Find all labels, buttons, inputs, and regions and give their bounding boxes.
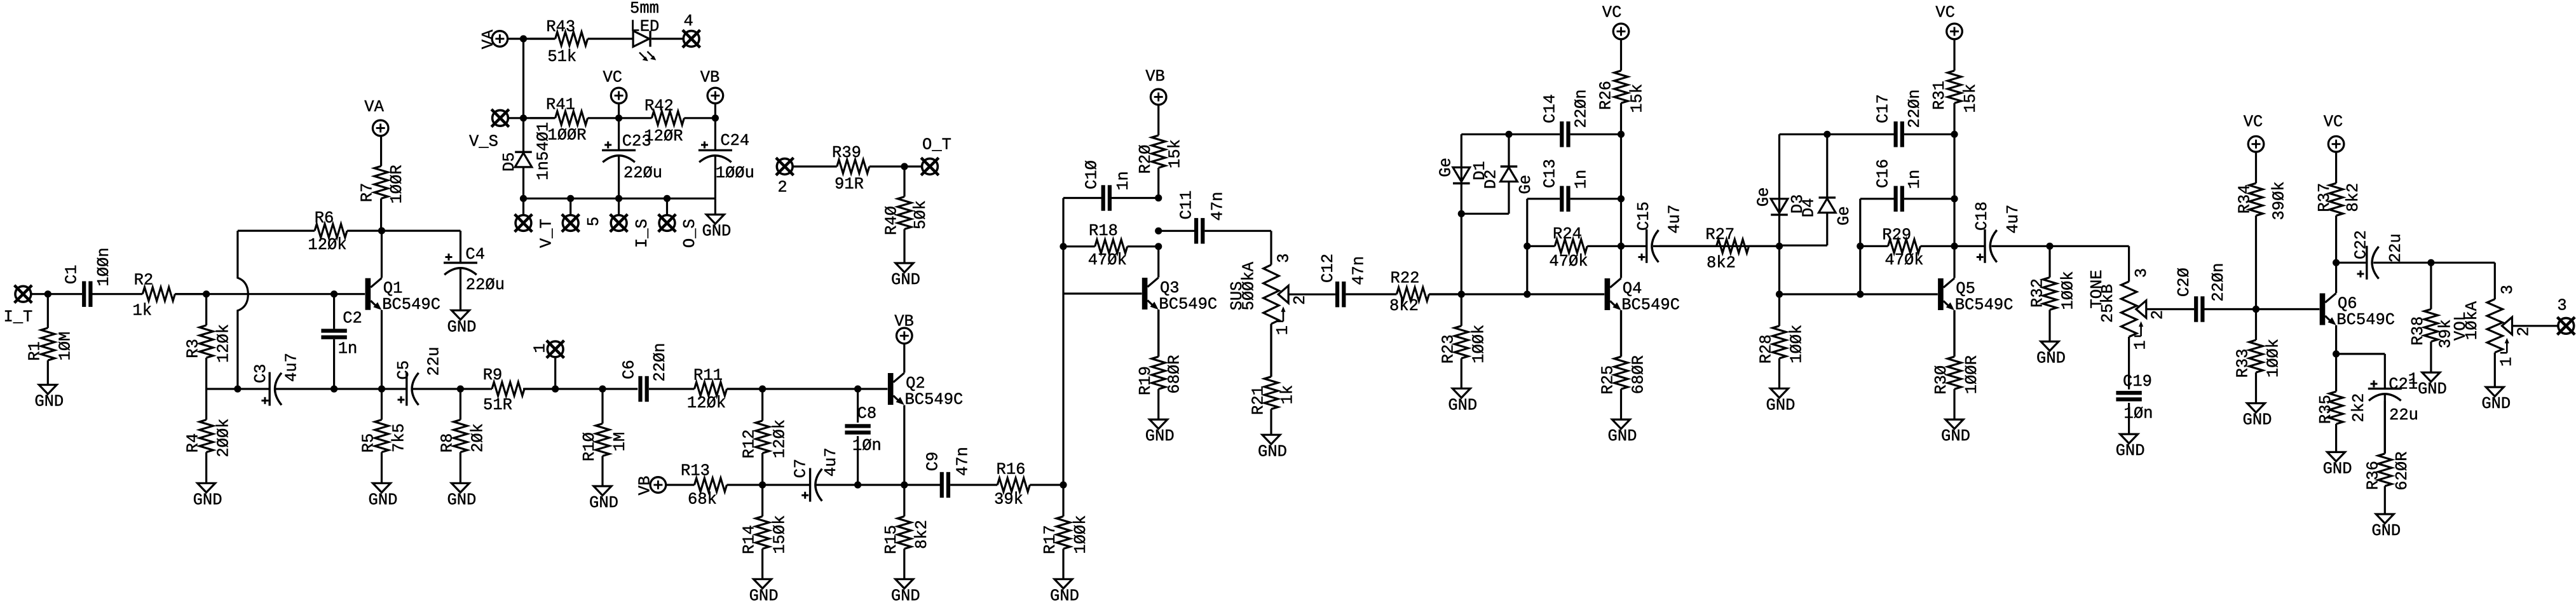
junction: [378, 228, 385, 235]
svg-text:C14: C14: [1541, 94, 1560, 123]
wire: [2494, 353, 2496, 387]
svg-text:22Øn: 22Øn: [1905, 89, 1924, 128]
wire net R29 left column: [1859, 199, 1861, 294]
svg-text:1ØØR: 1ØØR: [1963, 355, 1981, 394]
capacitor C13: [1541, 159, 1591, 212]
wire: [2373, 262, 2495, 264]
junction: [2333, 350, 2340, 357]
junction: [234, 385, 241, 392]
svg-text:GND: GND: [2036, 350, 2066, 368]
svg-text:1k: 1k: [1279, 385, 1297, 405]
wire net D4 column: [1826, 134, 1828, 198]
ground: [1941, 419, 1970, 445]
svg-text:R7: R7: [358, 182, 376, 202]
wire: [523, 388, 637, 390]
svg-text:BC549C: BC549C: [1159, 296, 1217, 314]
wire: [1953, 310, 1955, 357]
ground: [369, 483, 398, 509]
svg-text:VC: VC: [2244, 113, 2263, 132]
svg-text:VB: VB: [894, 313, 914, 331]
capacitor C17: [1874, 89, 1924, 147]
wire: [714, 198, 716, 214]
capacitor C18: [1973, 201, 2022, 263]
power VA: [364, 98, 388, 136]
wire: [460, 231, 461, 262]
junction: [2252, 306, 2259, 313]
junction: [759, 481, 766, 488]
svg-text:1n: 1n: [1114, 171, 1133, 191]
capacitor C23: [602, 132, 662, 182]
ground: [1145, 419, 1175, 445]
svg-text:V_S: V_S: [469, 133, 498, 151]
svg-text:8k2: 8k2: [1389, 297, 1419, 315]
svg-text:5: 5: [585, 217, 603, 226]
svg-text:C15: C15: [1635, 201, 1653, 231]
junction: [2427, 259, 2434, 266]
wire: [1270, 231, 1272, 264]
svg-text:R19: R19: [1136, 366, 1155, 395]
wire: [1780, 245, 1827, 247]
svg-text:1ØØk: 1ØØk: [2059, 271, 2078, 309]
junction: [2046, 243, 2053, 250]
diode D4: [1800, 198, 1854, 226]
junction: [1951, 131, 1958, 138]
svg-text:R11: R11: [693, 367, 723, 385]
wire: [1270, 324, 1272, 377]
ground: [2418, 372, 2447, 398]
svg-text:1ØØk: 1ØØk: [1072, 515, 1090, 554]
wire: [1063, 292, 1142, 294]
svg-text:VB: VB: [1145, 67, 1165, 86]
diode D2: [1482, 167, 1535, 194]
svg-text:VC: VC: [2324, 113, 2343, 132]
ground: [2036, 341, 2066, 367]
resistor R15: [882, 485, 931, 579]
capacitor C15: [1635, 201, 1684, 263]
svg-text:C2: C2: [343, 309, 362, 328]
svg-text:62ØR: 62ØR: [2393, 451, 2411, 490]
wire: [714, 104, 716, 118]
svg-text:1n: 1n: [1572, 170, 1591, 189]
svg-text:68ØR: 68ØR: [1165, 355, 1183, 393]
svg-text:LED: LED: [630, 17, 659, 36]
capacitor C22: [2352, 230, 2406, 280]
ground: [589, 486, 618, 512]
junction: [378, 385, 385, 392]
capacitor C6: [620, 343, 670, 402]
svg-text:R3: R3: [184, 339, 203, 358]
svg-text:C16: C16: [1874, 159, 1893, 188]
junction: [1060, 243, 1067, 250]
svg-text:91R: 91R: [835, 175, 864, 194]
wire: [1159, 230, 1194, 232]
transistor Q4: [1605, 278, 1680, 315]
resistor R21: [1249, 324, 1297, 435]
svg-text:1Øn: 1Øn: [852, 437, 882, 455]
svg-text:R14: R14: [740, 525, 759, 554]
capacitor C19: [2116, 372, 2153, 423]
wire: [1571, 198, 1621, 200]
svg-text:22Øn: 22Øn: [1572, 89, 1591, 128]
ground: [2243, 404, 2272, 430]
wire: [618, 104, 620, 118]
svg-text:5Øk: 5Øk: [911, 200, 930, 229]
svg-text:C22: C22: [2352, 230, 2371, 259]
junction: [1155, 194, 1162, 201]
wire: [2128, 403, 2130, 434]
power VB: [1145, 67, 1166, 105]
svg-text:1ØØR: 1ØØR: [547, 126, 586, 145]
transistor Q2: [888, 373, 963, 409]
wire: [2336, 262, 2366, 264]
ground: [193, 483, 222, 509]
svg-text:GND: GND: [1448, 396, 1477, 414]
transistor Q3: [1142, 278, 1217, 314]
svg-text:1M: 1M: [611, 432, 629, 452]
svg-text:51k: 51k: [547, 48, 576, 66]
svg-text:R16: R16: [997, 461, 1026, 479]
port 5: [562, 214, 580, 232]
ground: [447, 310, 477, 336]
svg-text:GND: GND: [2371, 522, 2401, 540]
junction: [520, 195, 527, 202]
svg-text:1n54Ø1: 1n54Ø1: [534, 122, 552, 180]
wire: [857, 389, 859, 423]
wire: [333, 294, 335, 329]
svg-text:47n: 47n: [1350, 256, 1368, 285]
svg-text:GND: GND: [2418, 380, 2447, 398]
svg-text:Ge: Ge: [1754, 187, 1773, 207]
resistor R16: [950, 461, 1063, 509]
svg-text:VB: VB: [700, 68, 720, 86]
svg-text:R4: R4: [184, 433, 203, 453]
svg-text:C18: C18: [1973, 201, 1991, 231]
wire net D3 column: [1778, 134, 1780, 294]
wire: [618, 118, 620, 151]
svg-text:R34: R34: [2236, 184, 2254, 214]
svg-text:R39: R39: [832, 144, 861, 162]
wire: [2128, 246, 2130, 282]
svg-text:R31: R31: [1930, 81, 1949, 110]
junction: [331, 385, 337, 392]
wire: [1429, 293, 1604, 295]
svg-text:15k: 15k: [1166, 139, 1184, 168]
svg-text:7k5: 7k5: [390, 423, 409, 452]
svg-text:2ØØk: 2ØØk: [215, 418, 233, 457]
svg-text:1ØØk: 1ØØk: [1788, 325, 1806, 364]
svg-text:VC: VC: [1935, 4, 1955, 22]
svg-text:1ØØn: 1ØØn: [95, 247, 113, 286]
svg-text:1k: 1k: [132, 302, 152, 320]
svg-text:Ge: Ge: [1436, 158, 1455, 177]
svg-text:C13: C13: [1541, 159, 1560, 188]
svg-text:I_T: I_T: [3, 308, 32, 326]
wire net Q4 collector column: [1620, 134, 1622, 278]
wire: [1527, 198, 1560, 200]
wire: [2146, 308, 2194, 310]
svg-text:22Øu: 22Øu: [624, 164, 662, 182]
svg-text:R33: R33: [2234, 349, 2252, 378]
wire: [2128, 337, 2130, 390]
ground: [34, 385, 64, 411]
diode D5: [500, 122, 552, 180]
port 2: [776, 158, 794, 175]
resistor R22: [1346, 269, 1461, 315]
resistor R36: [2364, 400, 2411, 514]
capacitor C20: [2175, 263, 2228, 322]
junction: [567, 195, 574, 202]
power VC: [1935, 4, 1962, 39]
junction: [1951, 243, 1958, 250]
wire: [1653, 245, 1780, 247]
wire: [2494, 262, 2496, 299]
svg-text:3: 3: [2132, 268, 2151, 278]
ground: [2116, 434, 2145, 460]
svg-text:12Øk: 12Øk: [215, 324, 233, 363]
wire: [1110, 197, 1159, 199]
power VC: [2324, 113, 2344, 152]
junction: [1155, 228, 1162, 235]
wire: [714, 118, 716, 151]
resistor R26: [1597, 39, 1646, 135]
svg-text:R41: R41: [546, 96, 575, 114]
port I_S: [610, 214, 628, 232]
resistor R1: [25, 294, 74, 385]
ground: [1608, 419, 1637, 445]
capacitor C16: [1874, 159, 1924, 212]
resistor R30: [1932, 310, 1981, 419]
resistor R35: [2317, 354, 2368, 452]
capacitor C10: [1083, 160, 1133, 211]
svg-text:R37: R37: [2315, 183, 2334, 212]
ground: [1258, 435, 1287, 461]
svg-text:68k: 68k: [688, 491, 717, 509]
svg-text:4u7: 4u7: [822, 447, 840, 477]
wire: [903, 405, 905, 486]
svg-text:8k2: 8k2: [2344, 183, 2362, 212]
wire net D1 column: [1461, 134, 1462, 294]
svg-text:C9: C9: [924, 452, 943, 472]
svg-text:GND: GND: [369, 491, 398, 509]
wire: [382, 230, 461, 232]
ground: [702, 215, 731, 241]
junction: [203, 290, 210, 297]
resistor R7: [358, 136, 406, 231]
resistor R8: [439, 389, 487, 483]
ground: [891, 263, 920, 289]
junction: [599, 385, 606, 392]
junction: [1823, 131, 1830, 138]
power VB: [700, 68, 723, 103]
resistor R9: [483, 366, 555, 414]
junction: [520, 35, 527, 42]
svg-text:V_T: V_T: [537, 219, 555, 248]
junction: [1155, 243, 1162, 250]
ground: [2481, 387, 2511, 413]
resistor R32: [2029, 246, 2078, 341]
wire: [175, 293, 365, 295]
resistor R38: [2409, 262, 2455, 372]
svg-text:15k: 15k: [1961, 84, 1980, 113]
wire: [903, 344, 905, 373]
svg-text:1ØØu: 1ØØu: [716, 164, 754, 182]
capacitor C9: [924, 447, 972, 498]
svg-text:Ge: Ge: [1835, 206, 1853, 226]
wire: [1991, 245, 2129, 247]
svg-text:12Øk: 12Øk: [308, 236, 346, 254]
wire: [651, 37, 683, 39]
svg-text:8k2: 8k2: [913, 520, 931, 549]
wire: [904, 165, 922, 167]
wire: [2256, 308, 2320, 310]
svg-text:R2: R2: [134, 271, 154, 290]
junction: [1776, 290, 1783, 297]
wire: [793, 165, 837, 167]
wire: [524, 198, 716, 200]
junction: [1618, 131, 1625, 138]
svg-text:R12: R12: [740, 430, 759, 459]
svg-text:C2Ø: C2Ø: [2175, 268, 2193, 297]
wire: [1157, 309, 1159, 357]
svg-text:1: 1: [531, 343, 550, 353]
svg-text:R18: R18: [1089, 222, 1118, 240]
svg-text:BC549C: BC549C: [382, 296, 440, 314]
power VC: [1602, 4, 1629, 39]
junction: [1776, 243, 1783, 250]
wire: [1288, 294, 1335, 296]
svg-text:22u: 22u: [2389, 406, 2418, 425]
svg-text:15k: 15k: [1628, 84, 1647, 113]
svg-text:GND: GND: [749, 587, 779, 605]
svg-text:4u7: 4u7: [283, 353, 301, 382]
svg-text:3: 3: [2557, 297, 2566, 315]
svg-text:R6: R6: [315, 209, 334, 228]
wire: [727, 388, 888, 390]
svg-text:GND: GND: [2116, 442, 2145, 460]
svg-text:R42: R42: [644, 97, 674, 115]
wire net VA column: [522, 39, 524, 118]
svg-text:GND: GND: [2323, 460, 2352, 479]
junction: [1951, 195, 1958, 202]
svg-text:47Øk: 47Øk: [1549, 252, 1588, 271]
resistor R24: [1527, 225, 1621, 271]
resistor R3: [184, 294, 233, 389]
svg-text:C6: C6: [620, 360, 639, 379]
svg-text:22u: 22u: [425, 347, 444, 376]
svg-text:R27: R27: [1705, 226, 1734, 244]
svg-text:1: 1: [2132, 340, 2150, 350]
junction: [552, 385, 559, 392]
junction: [1523, 290, 1530, 297]
svg-text:C19: C19: [2123, 372, 2152, 391]
svg-text:C11: C11: [1177, 191, 1196, 220]
resistor R34: [2236, 152, 2289, 309]
svg-text:R22: R22: [1391, 269, 1420, 287]
svg-text:1: 1: [2497, 357, 2516, 367]
svg-text:VC: VC: [603, 68, 622, 86]
wire: [1621, 245, 1646, 247]
svg-text:BC549C: BC549C: [1621, 296, 1680, 315]
power VC: [603, 68, 626, 103]
port O_S: [658, 214, 676, 232]
wire: [1860, 198, 1894, 200]
ground: [2323, 452, 2352, 478]
svg-text:GND: GND: [589, 494, 618, 512]
svg-text:R23: R23: [1439, 334, 1457, 364]
wire: [1461, 133, 1462, 135]
svg-text:68ØR: 68ØR: [1630, 355, 1648, 394]
svg-text:R17: R17: [1041, 525, 1060, 554]
svg-text:GND: GND: [193, 491, 222, 509]
capacitor C12: [1319, 254, 1368, 307]
resistor R40: [883, 167, 930, 263]
wire feedback with hop: [238, 231, 248, 389]
port 3: [2558, 317, 2575, 335]
resistor R13: [666, 462, 763, 509]
wire net D2 column: [1508, 134, 1509, 167]
wire: [618, 198, 620, 215]
junction: [1618, 243, 1625, 250]
ground: [891, 579, 920, 605]
svg-text:BC549C: BC549C: [1955, 296, 2014, 315]
svg-text:C5: C5: [395, 360, 413, 380]
resistor R5: [360, 389, 409, 483]
svg-text:R5: R5: [360, 433, 378, 453]
svg-text:15Øk: 15Øk: [771, 515, 789, 554]
svg-text:R1: R1: [25, 341, 44, 361]
wire: [2512, 325, 2559, 327]
svg-text:GND: GND: [2243, 411, 2272, 430]
svg-text:R43: R43: [546, 18, 575, 36]
svg-text:Ge: Ge: [1516, 175, 1535, 194]
port V_S: [491, 109, 509, 127]
svg-text:47n: 47n: [954, 447, 972, 476]
power VA: [479, 29, 508, 49]
wire: [1904, 198, 1954, 200]
svg-text:R25: R25: [1599, 365, 1618, 395]
junction: [1857, 243, 1864, 250]
svg-text:39k: 39k: [994, 491, 1023, 509]
junction: [457, 385, 464, 392]
svg-text:12Øk: 12Øk: [687, 394, 726, 412]
capacitor C14: [1541, 89, 1591, 147]
wire: [1461, 133, 1560, 135]
svg-text:VA: VA: [364, 98, 384, 116]
ground: [447, 483, 476, 509]
wire: [413, 388, 491, 390]
ground: [1448, 388, 1477, 414]
svg-text:39Øk: 39Øk: [2270, 181, 2289, 220]
wire: [2205, 308, 2256, 310]
wire: [508, 37, 555, 39]
ground: [1766, 388, 1796, 414]
wire: [1827, 133, 1894, 135]
junction: [854, 481, 861, 488]
svg-text:GND: GND: [1258, 442, 1287, 461]
LED: [633, 31, 656, 61]
port O_T: [921, 158, 939, 175]
svg-text:2: 2: [1291, 296, 1309, 305]
svg-text:R24: R24: [1553, 225, 1582, 243]
potentiometer TONE: [2088, 269, 2146, 337]
svg-text:5mm: 5mm: [630, 0, 659, 18]
resistor R2: [93, 271, 207, 320]
svg-text:C3: C3: [252, 364, 270, 383]
wire: [714, 156, 716, 198]
svg-text:R9: R9: [483, 366, 503, 384]
ground: [749, 579, 779, 605]
svg-text:D4: D4: [1800, 198, 1818, 217]
